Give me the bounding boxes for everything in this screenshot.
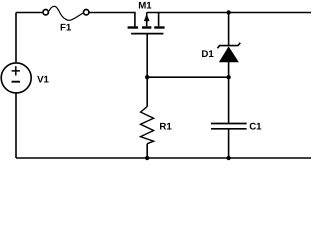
node R1 bottom <box>145 156 149 160</box>
plus <box>12 66 20 75</box>
svg-text:R1: R1 <box>159 122 172 133</box>
cathode lead <box>228 13 230 46</box>
svg-text:M1: M1 <box>138 0 152 11</box>
minus <box>12 81 20 83</box>
svg-text:F1: F1 <box>60 23 72 34</box>
capacitor C1 <box>211 77 247 158</box>
source bar <box>154 26 164 28</box>
body bar <box>142 26 151 28</box>
gate plate <box>131 33 163 35</box>
zener bar <box>217 43 240 49</box>
node top rail / D1 junction <box>226 10 230 14</box>
source lead <box>158 13 160 27</box>
resistor R1 <box>141 77 154 158</box>
wire top rail left segment <box>16 12 42 14</box>
node gate/R1 <box>145 75 149 79</box>
triangle <box>219 46 239 62</box>
gate lead <box>146 34 148 77</box>
wire top rail right segment <box>147 12 311 14</box>
svg-text:V1: V1 <box>37 75 49 86</box>
wire fuse to M1 drain <box>90 13 135 27</box>
wire bottom rail <box>16 157 311 159</box>
svg-text:D1: D1 <box>201 49 214 60</box>
drain bar <box>128 26 139 28</box>
transistor M1 <box>128 13 165 78</box>
svg-text:C1: C1 <box>249 121 262 132</box>
diode D1 (zener) <box>217 13 240 78</box>
node D1/C1 <box>226 75 230 79</box>
source V1 <box>1 13 31 159</box>
fuse F1 <box>43 6 89 20</box>
node C1 bottom <box>226 156 230 160</box>
wire gate node to D1 anode <box>147 76 228 78</box>
body lead with arrow <box>146 13 148 27</box>
anode lead <box>228 62 230 77</box>
